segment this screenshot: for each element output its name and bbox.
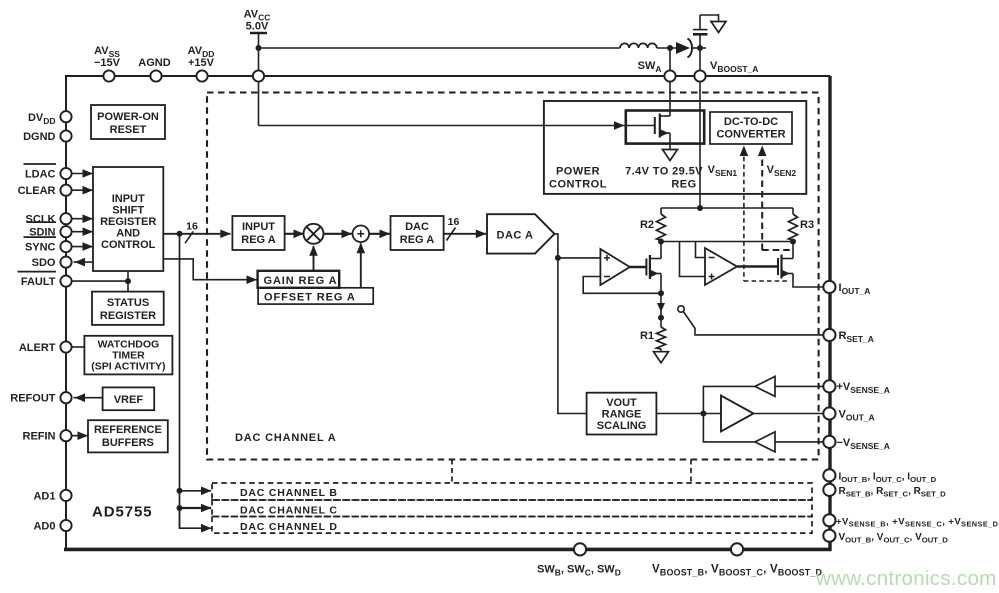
svg-text:+15V: +15V — [188, 57, 215, 69]
svg-text:IOUT_A​: IOUT_A​ — [839, 282, 871, 296]
pin +VSENSE_B/C/D — [823, 514, 835, 526]
wire SYNC to ISR — [72, 246, 93, 248]
svg-text:SHIFT: SHIFT — [112, 205, 144, 217]
wire VBOOST_A pin down to R2/R3 rail — [699, 82, 701, 208]
wire LDAC to ISR — [72, 173, 93, 175]
pin RSET_A — [823, 329, 835, 341]
wire AVCC node to inductor — [259, 47, 621, 49]
block OFFSET REG A — [258, 288, 373, 304]
svg-text:VSEN1​: VSEN1​ — [708, 164, 738, 178]
block REFERENCE BUFFERS — [88, 420, 168, 452]
resistor R2 — [660, 208, 662, 214]
pin REFIN — [60, 430, 71, 441]
wire diode to VBOOST node — [691, 47, 706, 49]
pin SW_B/C/D — [574, 543, 586, 555]
node FAULT junction — [125, 278, 131, 284]
wire REFIN to reference buffers — [72, 435, 88, 437]
ground (boost switch) — [663, 150, 678, 161]
pin IOUT_A — [823, 281, 835, 293]
svg-text:CONTROL: CONTROL — [101, 239, 156, 251]
pin AD1 — [60, 490, 71, 501]
block boost switch (thick box) — [626, 111, 704, 144]
op-amp U3 (boost sense) — [705, 248, 737, 285]
dashed connector DAC A to channel boxes (right) — [690, 460, 692, 484]
pin SCLK — [60, 213, 71, 224]
ground (top right) — [711, 22, 726, 33]
pin AVSS -15V — [103, 70, 114, 81]
diode D1 (Schottky) — [676, 42, 690, 54]
block DAC REG A — [391, 216, 444, 250]
svg-text:CONTROL: CONTROL — [549, 179, 607, 191]
wire inductor to SW node — [657, 47, 676, 49]
svg-text:IOUT_B​, IOUT_C​, IOUT_D​: IOUT_B​, IOUT_C​, IOUT_D​ — [839, 472, 937, 484]
wire to DAC CHANNEL B — [180, 490, 212, 492]
switch to RSET_A (open) — [678, 306, 684, 312]
wire multiplier to adder — [324, 233, 352, 235]
svg-text:RESET: RESET — [110, 124, 147, 136]
wire data bus down to channels B C D — [179, 234, 181, 528]
wire VREF to REFOUT (output) — [74, 397, 103, 399]
bus slash 16 (ISR output) — [185, 231, 193, 243]
multiplier (gain) — [304, 224, 324, 244]
pin VBOOST_A — [699, 48, 701, 70]
svg-text:REFERENCE: REFERENCE — [94, 424, 162, 436]
wire VBOOST node up to capacitor — [699, 35, 701, 48]
svg-text:DGND: DGND — [23, 131, 55, 143]
block INPUT REG A — [232, 216, 284, 250]
svg-text:REGISTER: REGISTER — [100, 216, 156, 228]
resistor R3 — [792, 208, 794, 214]
svg-text:FAULT: FAULT — [21, 276, 56, 288]
svg-text:VREF: VREF — [114, 394, 144, 406]
node bus junction — [177, 231, 183, 237]
node feedback junction — [658, 290, 664, 296]
pin AVDD +15V — [196, 70, 207, 81]
block WATCHDOG TIMER (SPI ACTIVITY) — [84, 336, 172, 375]
pin AGND — [150, 70, 161, 81]
node AVCC junction above rail — [256, 45, 262, 51]
node VBOOST_A top — [697, 45, 703, 51]
wire ISR data bus to INPUT REG A (16) — [163, 233, 230, 235]
svg-text:STATUS: STATUS — [107, 297, 149, 309]
wire SW_A pin into power MOSFET drain — [669, 82, 671, 116]
svg-text:SCLK: SCLK — [26, 214, 56, 226]
wire U2 output to Q2 gate — [630, 266, 647, 268]
node R3 bottom — [792, 240, 794, 242]
svg-text:DAC CHANNEL C: DAC CHANNEL C — [240, 505, 338, 517]
pin ALERT — [60, 341, 71, 352]
wire +VSENSE_A to sense buffer — [775, 385, 824, 387]
node channel C tap — [177, 505, 183, 511]
adder (offset) — [353, 226, 370, 243]
svg-text:REG A: REG A — [241, 234, 275, 246]
svg-text:DC-TO-DC: DC-TO-DC — [724, 116, 778, 128]
svg-text:INPUT: INPUT — [112, 193, 145, 205]
sense buffer U5 (+VSENSE) — [755, 376, 775, 396]
block VREF — [103, 387, 155, 410]
pin AVCC — [253, 70, 264, 81]
block POWER-ON RESET — [91, 105, 165, 139]
svg-text:DAC A: DAC A — [497, 230, 534, 242]
wire INPUT REG A to multiplier — [285, 233, 304, 235]
wire SDO from ISR (output) — [74, 261, 94, 263]
svg-text:−VSENSE_A​: −VSENSE_A​ — [837, 437, 890, 451]
svg-text:SCALING: SCALING — [597, 420, 647, 432]
resistor R1 — [657, 327, 666, 349]
pin DVDD — [60, 111, 71, 122]
wire ISR to STATUS REGISTER — [127, 271, 129, 292]
svg-text:CLEAR: CLEAR — [18, 185, 56, 197]
transistor Q1 (boost NMOS) — [654, 117, 656, 134]
dashed sense wire VSEN2 — [761, 149, 763, 250]
transistor Q3 — [777, 258, 779, 275]
wire R1 to ground — [660, 349, 662, 352]
wire SDIN to ISR — [72, 231, 93, 233]
node SW_A — [667, 45, 673, 51]
svg-text:SWA​: SWA​ — [638, 60, 662, 74]
wire adder to DAC REG A — [369, 233, 390, 235]
svg-text:VOUT_B​, VOUT_C​, VOUT_D​: VOUT_B​, VOUT_C​, VOUT_D​ — [839, 532, 949, 544]
wire R3 node to U3 inverting input — [696, 242, 706, 258]
block POWER CONTROL — [544, 101, 806, 194]
wire DAC REG A to DAC A (16) — [444, 233, 486, 235]
svg-text:INPUT: INPUT — [242, 221, 275, 233]
node VBOOST rail junction — [697, 205, 703, 211]
svg-text:POWER: POWER — [556, 166, 600, 178]
svg-text:AND: AND — [116, 228, 140, 240]
pin SDIN (active low) — [60, 226, 71, 237]
svg-text:www.cntronics.com: www.cntronics.com — [815, 567, 997, 590]
inductor L1 — [620, 43, 657, 48]
svg-text:VOUT: VOUT — [606, 397, 637, 409]
pin IOUT_B/C/D — [823, 469, 835, 481]
pin SYNC (active low) — [60, 241, 71, 252]
svg-text:REGISTER: REGISTER — [100, 310, 156, 322]
block DC-TO-DC CONVERTER — [710, 112, 792, 144]
svg-text:REG: REG — [671, 179, 696, 191]
svg-text:SYNC: SYNC — [25, 242, 56, 254]
svg-text:RANGE: RANGE — [602, 409, 642, 421]
wire feedback to U2 inverting input — [583, 277, 661, 294]
wire VOUT scaling to output buffer — [656, 413, 721, 415]
wire GAIN REG A to multiplier — [313, 246, 315, 271]
svg-text:VBOOST_B​, VBOOST_C​, VBOOST_D: VBOOST_B​, VBOOST_C​, VBOOST_D​ — [652, 564, 823, 578]
svg-text:AD0: AD0 — [33, 521, 55, 533]
pin SW_A — [669, 48, 671, 70]
wire to DAC CHANNEL C — [180, 507, 212, 509]
pin VOUT_A — [823, 407, 835, 419]
pin DGND — [60, 130, 71, 141]
svg-text:RSET_A​: RSET_A​ — [839, 330, 874, 344]
op-amp U2 (current loop) — [600, 249, 629, 285]
svg-text:OFFSET REG A: OFFSET REG A — [264, 292, 356, 304]
svg-text:CONVERTER: CONVERTER — [716, 129, 785, 141]
pin RSET_B/C/D — [823, 484, 835, 496]
svg-text:AD1: AD1 — [33, 490, 55, 502]
pin SDO — [60, 257, 71, 268]
block GAIN REG A — [258, 271, 340, 288]
pin REFOUT — [60, 392, 71, 403]
svg-text:ALERT: ALERT — [19, 342, 56, 354]
node R2 bottom — [660, 240, 662, 242]
wire CLEAR to ISR — [72, 189, 93, 191]
pin VOUT_B/C/D — [823, 530, 835, 542]
svg-text:+VSENSE_A​: +VSENSE_A​ — [837, 381, 890, 395]
wire to DAC CHANNEL D — [180, 508, 212, 528]
svg-text:VSEN2​: VSEN2​ — [767, 164, 797, 178]
wire SCLK to ISR — [72, 218, 93, 220]
wire FAULT to status register node — [72, 280, 128, 282]
svg-text:−15V: −15V — [94, 57, 121, 69]
svg-text:16: 16 — [186, 221, 198, 233]
dashed sense wire VSEN1 — [743, 149, 745, 281]
dashed box DAC CHANNEL C — [212, 500, 812, 517]
svg-text:7.4V TO 29.5V: 7.4V TO 29.5V — [625, 166, 703, 178]
pin AD0 — [60, 520, 71, 531]
svg-text:GAIN REG A: GAIN REG A — [264, 275, 338, 287]
wire buffer output to VOUT_A pin — [754, 413, 824, 415]
svg-text:DAC CHANNEL B: DAC CHANNEL B — [240, 487, 338, 499]
svg-text:(SPI ACTIVITY): (SPI ACTIVITY) — [91, 361, 165, 373]
svg-text:BUFFERS: BUFFERS — [102, 437, 154, 449]
svg-text:DAC CHANNEL D: DAC CHANNEL D — [240, 521, 338, 533]
pin FAULT (active low) — [60, 276, 71, 287]
dashed box DAC CHANNEL B — [212, 483, 812, 500]
svg-text:SWB​, SWC​, SWD​: SWB​, SWC​, SWD​ — [537, 564, 621, 578]
pin CLEAR — [60, 185, 71, 196]
wire U3 output to Q3 gate — [737, 265, 778, 267]
svg-text:R1: R1 — [640, 330, 654, 342]
wire Q2 source down to R1 node — [660, 274, 662, 294]
wire R2/R3 top rail — [661, 207, 793, 209]
pin +VSENSE_A — [823, 380, 835, 392]
dashed connector DAC A to channel boxes (left) — [451, 460, 453, 484]
node channel B tap — [177, 488, 183, 494]
sense buffer U6 (-VSENSE) — [755, 432, 775, 452]
svg-text:DAC CHANNEL A: DAC CHANNEL A — [235, 432, 336, 444]
svg-text:DVDD​: DVDD​ — [28, 112, 56, 126]
svg-text:REFOUT: REFOUT — [10, 393, 56, 405]
svg-text:LDAC: LDAC — [25, 169, 56, 181]
svg-text:RSET_B​, RSET_C​, RSET_D​: RSET_B​, RSET_C​, RSET_D​ — [839, 486, 947, 498]
svg-text:REFIN: REFIN — [23, 431, 56, 443]
ground (R1) — [654, 352, 669, 363]
wire R2 node to U3 non-inverting input — [661, 241, 793, 243]
block VOUT RANGE SCALING — [587, 393, 657, 435]
wire capacitor to ground — [699, 15, 701, 30]
wire -VSENSE_A to sense buffer — [775, 441, 824, 443]
block STATUS REGISTER — [92, 292, 164, 325]
bus slash 16 (DAC data) — [447, 228, 456, 241]
svg-text:SDO: SDO — [32, 257, 56, 269]
svg-text:+VSENSE_B​, +VSENSE_C​, +VSENS: +VSENSE_B​, +VSENSE_C​, +VSENSE_D​ — [836, 517, 998, 529]
block INPUT SHIFT REGISTER AND CONTROL U1 — [93, 167, 163, 271]
dashed box DAC CHANNEL A — [207, 93, 819, 460]
node DAC A output branch — [555, 255, 561, 261]
svg-text:DAC: DAC — [405, 221, 429, 233]
capacitor C1 — [693, 33, 708, 36]
svg-text:5.0V: 5.0V — [246, 21, 269, 33]
wire DAC A output down to VOUT scaling — [555, 234, 587, 414]
svg-text:R3: R3 — [800, 219, 814, 231]
pin LDAC (active low) — [60, 168, 71, 179]
wire OFFSET REG A to adder — [360, 244, 362, 288]
wire gate drive horizontal into power control — [259, 125, 655, 127]
node buffer input — [700, 411, 706, 417]
chip boundary AD5755 (top rail AVdd/left/right/bottom edges) — [66, 75, 830, 77]
transistor Q2 — [645, 259, 647, 276]
svg-text:VBOOST_A​: VBOOST_A​ — [710, 60, 758, 74]
svg-text:REG A: REG A — [400, 234, 434, 246]
svg-text:VOUT_A​: VOUT_A​ — [839, 409, 875, 423]
node R1 top — [658, 315, 664, 321]
svg-text:16: 16 — [448, 216, 460, 228]
wire AVCC stub to pin — [258, 33, 260, 70]
pin VBOOST_B/C/D — [731, 543, 743, 555]
wire DAC A output to op-amp U2 — [558, 257, 601, 259]
dashed box DAC CHANNEL D — [212, 517, 812, 534]
svg-text:R2: R2 — [640, 219, 654, 231]
wire AVCC pin down to power-control gate line — [258, 82, 260, 126]
wire sense buffer to feedback node — [703, 386, 755, 442]
wire ISR to gain/offset registers — [163, 259, 256, 280]
wire Q3 source to IOUT_A pin — [793, 274, 824, 288]
pin -VSENSE_A — [823, 436, 835, 448]
block DAC A (pentagon) — [487, 214, 555, 253]
current direction arrow — [660, 293, 662, 327]
svg-text:AD5755: AD5755 — [92, 504, 152, 521]
wire source to ground — [669, 133, 671, 150]
wire ALERT to watchdog — [72, 346, 85, 348]
buffer amp U4 (VOUT) — [721, 396, 754, 432]
svg-text:POWER-ON: POWER-ON — [97, 111, 159, 123]
svg-text:AGND: AGND — [138, 57, 170, 69]
